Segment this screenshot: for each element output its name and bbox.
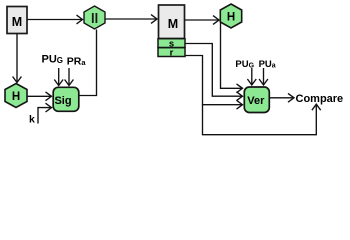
wire concat to block M2 (105, 18, 157, 20)
svg-text:PRa: PRa (67, 56, 87, 68)
svg-text:r: r (170, 47, 174, 58)
svg-text:PUG: PUG (42, 54, 64, 66)
wire PU_a to Ver (263, 68, 265, 85)
svg-text:Ver: Ver (247, 95, 265, 107)
wire Ver to Compare (269, 97, 294, 99)
svg-text:k: k (29, 114, 35, 126)
wire s to Ver (185, 44, 243, 97)
svg-text:H: H (227, 12, 235, 24)
wire r to Compare (bottom loop) (203, 104, 317, 135)
wire PR_a to Sig (68, 68, 70, 86)
wire hash H2 down to Ver (221, 22, 243, 88)
svg-text:M: M (12, 15, 22, 29)
block M2 cell (transmitted message) (159, 5, 185, 39)
svg-text:M: M (168, 17, 178, 31)
box Ver (244, 87, 269, 113)
svg-text:Compare: Compare (296, 93, 344, 105)
concat hexagon || (84, 6, 105, 29)
wire r to Ver (185, 56, 243, 105)
wire block M2 to hash H2 (185, 19, 219, 21)
s cell (158, 38, 185, 49)
wire PU_G to Sig (58, 68, 60, 86)
r cell (158, 47, 185, 58)
wire k to Sig (38, 108, 52, 124)
wire M1 down to hash H1 (16, 34, 18, 83)
wire Sig to concat (79, 30, 97, 96)
svg-text:H: H (12, 91, 20, 103)
hash H1 hexagon (sender) (5, 84, 27, 108)
wire M1 to concat (27, 19, 83, 21)
svg-text:Sig: Sig (54, 95, 71, 107)
wire hash H1 to Sig (27, 95, 52, 97)
box Sig (53, 87, 79, 111)
wire PU_G to Ver (251, 68, 253, 85)
box M1 (sender message) (7, 7, 27, 34)
hash H2 hexagon (receiver) (220, 4, 241, 28)
